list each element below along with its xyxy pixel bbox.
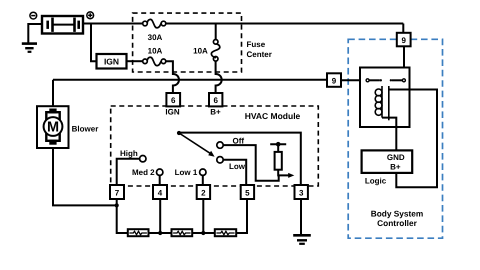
- node pin 4 tap: [158, 231, 162, 235]
- svg-text:B+: B+: [390, 163, 401, 172]
- wire pin 7 to resistor chain: [117, 199, 128, 233]
- connector 9 (left): [327, 73, 341, 87]
- HVAC module box: [111, 106, 319, 186]
- wire coil bottom to logic box: [382, 118, 396, 151]
- fuse 10A (B+, vertical): [211, 40, 219, 62]
- wire R4 to pin 5: [236, 199, 247, 233]
- svg-text:IGN: IGN: [165, 108, 179, 117]
- wire fuse 10A B+ output with crossover hop: [216, 61, 222, 93]
- pin 3: [295, 185, 308, 199]
- pin 2: [197, 185, 210, 199]
- resistor R3: [172, 229, 193, 236]
- svg-text:5: 5: [245, 188, 250, 197]
- wire IGN to fuse: [127, 60, 143, 62]
- svg-text:4: 4: [158, 188, 163, 197]
- wire relay output to blower feed: [53, 79, 327, 81]
- fuse center label: [247, 40, 272, 59]
- contact High: [140, 156, 146, 162]
- wire Low 1 contact to pin 2: [202, 175, 204, 185]
- svg-text:2: 2: [201, 188, 206, 197]
- connector 6 (IGN): [166, 93, 180, 106]
- svg-text:High: High: [120, 149, 138, 158]
- svg-text:6: 6: [171, 96, 176, 105]
- svg-text:Blower: Blower: [72, 125, 99, 134]
- wire fuse 10A IGN output with crossover hop: [166, 61, 179, 93]
- wire connector 9 to relay contact: [403, 46, 405, 79]
- svg-text:Off: Off: [233, 136, 245, 145]
- contact Med 2: [157, 169, 163, 175]
- logic module (GND / B+): [362, 150, 413, 173]
- battery B1: [42, 16, 83, 34]
- ignition switch IGN: [97, 54, 127, 69]
- battery positive terminal: [87, 12, 94, 19]
- body system controller box: [348, 39, 442, 238]
- svg-text:9: 9: [401, 36, 406, 45]
- label Body System Controller: [371, 208, 424, 228]
- resistor R4: [215, 229, 236, 236]
- node pin 2 tap: [201, 231, 205, 235]
- connector 9 (top): [397, 33, 411, 47]
- ground (HVAC module): [293, 235, 311, 244]
- node resistor top tap: [270, 142, 286, 152]
- wire R3 to R4: [192, 232, 215, 234]
- svg-text:Controller: Controller: [377, 218, 417, 228]
- svg-text:6: 6: [213, 96, 218, 105]
- wire tap to pin 2: [202, 199, 204, 233]
- resistor R1 (solid state): [275, 152, 282, 170]
- fuse 10A (IGN): [143, 57, 166, 65]
- svg-text:Body System: Body System: [371, 208, 424, 218]
- wire B+ main feed: [83, 23, 143, 25]
- wire Low contact to pin 5: [223, 160, 246, 185]
- pin 4: [153, 185, 167, 199]
- node blower junction: [115, 203, 119, 207]
- svg-text:Fuse: Fuse: [247, 40, 266, 49]
- svg-text:10A: 10A: [148, 47, 163, 56]
- wire 30A bus to vertical fuse: [215, 24, 217, 40]
- svg-text:3: 3: [299, 188, 304, 197]
- relay K1: [360, 68, 410, 128]
- svg-text:Center: Center: [247, 50, 272, 59]
- wire Med 2 contact to pin 4: [159, 175, 161, 185]
- pin 5: [241, 185, 254, 199]
- contact Low 1: [200, 169, 206, 175]
- wire R2 to R3: [149, 232, 172, 234]
- resistor R2: [128, 229, 149, 236]
- wire tap to pin 4: [159, 199, 161, 233]
- contact Low: [217, 157, 223, 163]
- pin 7: [110, 185, 124, 199]
- svg-text:7: 7: [115, 188, 120, 197]
- svg-text:Low 1: Low 1: [175, 168, 198, 177]
- connector 6 (B+): [209, 93, 222, 106]
- wire blower drop: [52, 80, 54, 106]
- wire pin 3 to ground: [300, 199, 302, 235]
- wire High contact to pin 7: [117, 159, 140, 185]
- svg-text:10A: 10A: [193, 47, 208, 56]
- svg-text:HVAC Module: HVAC Module: [245, 111, 301, 121]
- svg-text:IGN: IGN: [104, 56, 119, 66]
- relay coil: [375, 89, 382, 96]
- svg-text:Low: Low: [229, 162, 246, 171]
- relay contact: [366, 79, 369, 82]
- wire blower to resistor chain: [53, 148, 117, 205]
- wire battery to IGN switch: [91, 24, 97, 62]
- svg-text:M: M: [47, 120, 59, 136]
- svg-text:B+: B+: [210, 108, 221, 117]
- switch wiper arm: [179, 133, 215, 157]
- wire coil top to logic supply: [389, 90, 437, 188]
- svg-text:30A: 30A: [148, 33, 163, 42]
- svg-text:Med 2: Med 2: [132, 168, 155, 177]
- wire wiper common to pin 3: [179, 133, 301, 185]
- switch wiper pivot node: [177, 131, 181, 135]
- wire connector 9 to relay: [341, 79, 366, 81]
- ground (battery negative): [22, 24, 42, 52]
- contact Off: [217, 142, 223, 148]
- blower motor M1: [37, 106, 69, 148]
- svg-text:Logic: Logic: [365, 176, 387, 185]
- fuse center box: [133, 13, 242, 72]
- wire main feed to connector 9: [402, 24, 404, 33]
- fuse 30A: [143, 19, 166, 27]
- wire resistor output with arrow: [278, 170, 294, 178]
- svg-text:GND: GND: [387, 153, 405, 162]
- wire Off contact to resistor node: [223, 145, 279, 181]
- svg-text:9: 9: [332, 76, 337, 85]
- battery negative terminal: [30, 12, 37, 19]
